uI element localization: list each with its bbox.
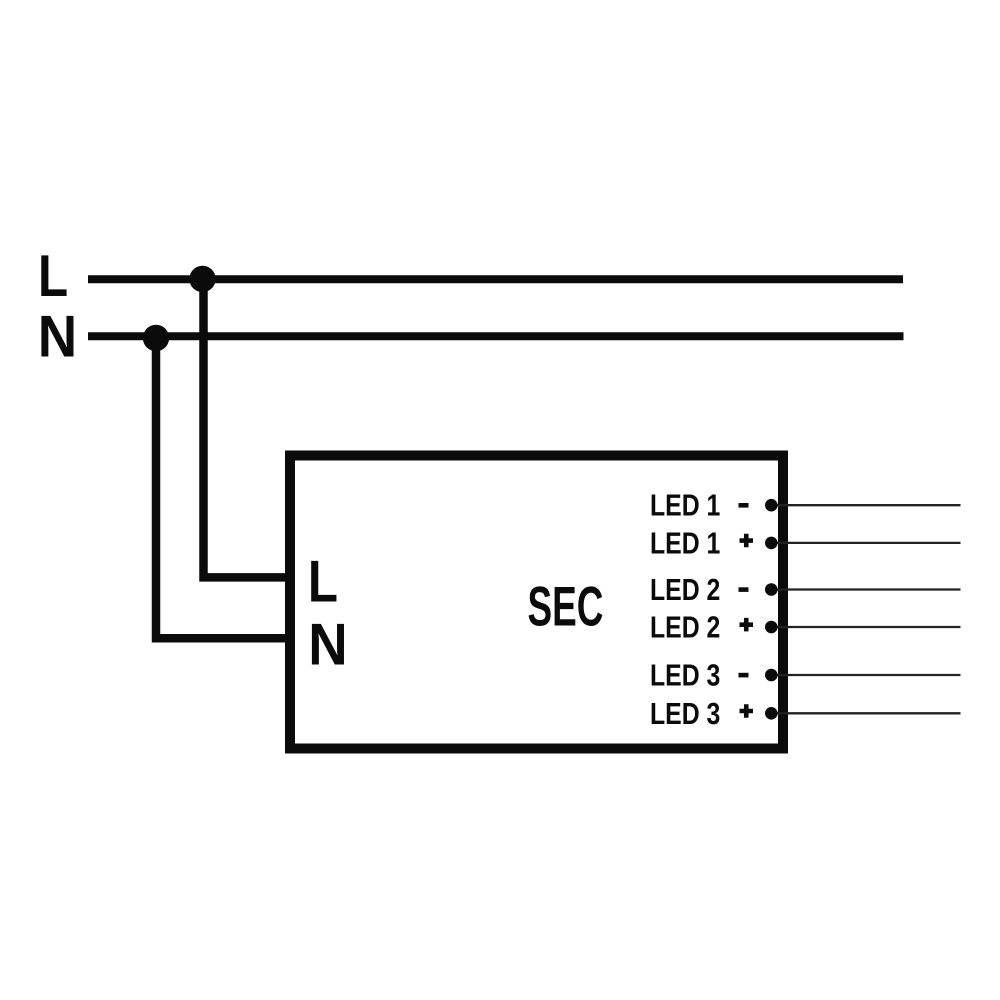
polarity sign minus LED1	[739, 503, 749, 508]
pin dot LED2-	[765, 583, 778, 596]
svg-text:LED 3: LED 3	[650, 659, 720, 693]
svg-text:LED 1: LED 1	[650, 489, 720, 523]
svg-text:LED 2: LED 2	[650, 573, 720, 607]
wire LED1- output line	[771, 504, 961, 506]
wire L bus horizontal	[88, 275, 903, 283]
node junction dot on N bus	[143, 325, 169, 351]
svg-text:N: N	[308, 611, 347, 677]
node junction dot on L bus	[189, 266, 215, 292]
wire from L junction down and right to driver L terminal	[204, 279, 291, 577]
svg-text:LED 1: LED 1	[650, 526, 720, 560]
wire LED3+ output line	[771, 712, 961, 714]
polarity sign minus LED3	[739, 673, 749, 678]
wire from N junction down and right to driver N terminal	[156, 338, 290, 638]
wire LED3- output line	[771, 674, 961, 676]
wire LED1+ output line	[771, 542, 961, 544]
polarity sign plus LED3	[740, 704, 754, 718]
pin dot LED3+	[765, 707, 778, 720]
svg-text:LED 2: LED 2	[650, 611, 720, 645]
svg-text:SEC: SEC	[528, 574, 604, 637]
svg-text:LED 3: LED 3	[650, 697, 720, 731]
polarity sign minus LED2	[739, 587, 749, 592]
polarity sign plus LED1	[740, 534, 754, 548]
wire N bus horizontal	[88, 332, 904, 340]
polarity sign plus LED2	[740, 618, 754, 632]
svg-text:N: N	[38, 304, 77, 370]
pin dot LED3-	[765, 669, 778, 682]
pin dot LED2+	[765, 621, 778, 634]
svg-text:L: L	[308, 548, 338, 614]
pin dot LED1-	[765, 499, 778, 512]
svg-text:L: L	[38, 243, 68, 309]
wire LED2+ output line	[771, 626, 961, 628]
pin dot LED1+	[765, 537, 778, 550]
LED driver U1 box outline	[290, 456, 783, 749]
wire LED2- output line	[771, 588, 961, 590]
